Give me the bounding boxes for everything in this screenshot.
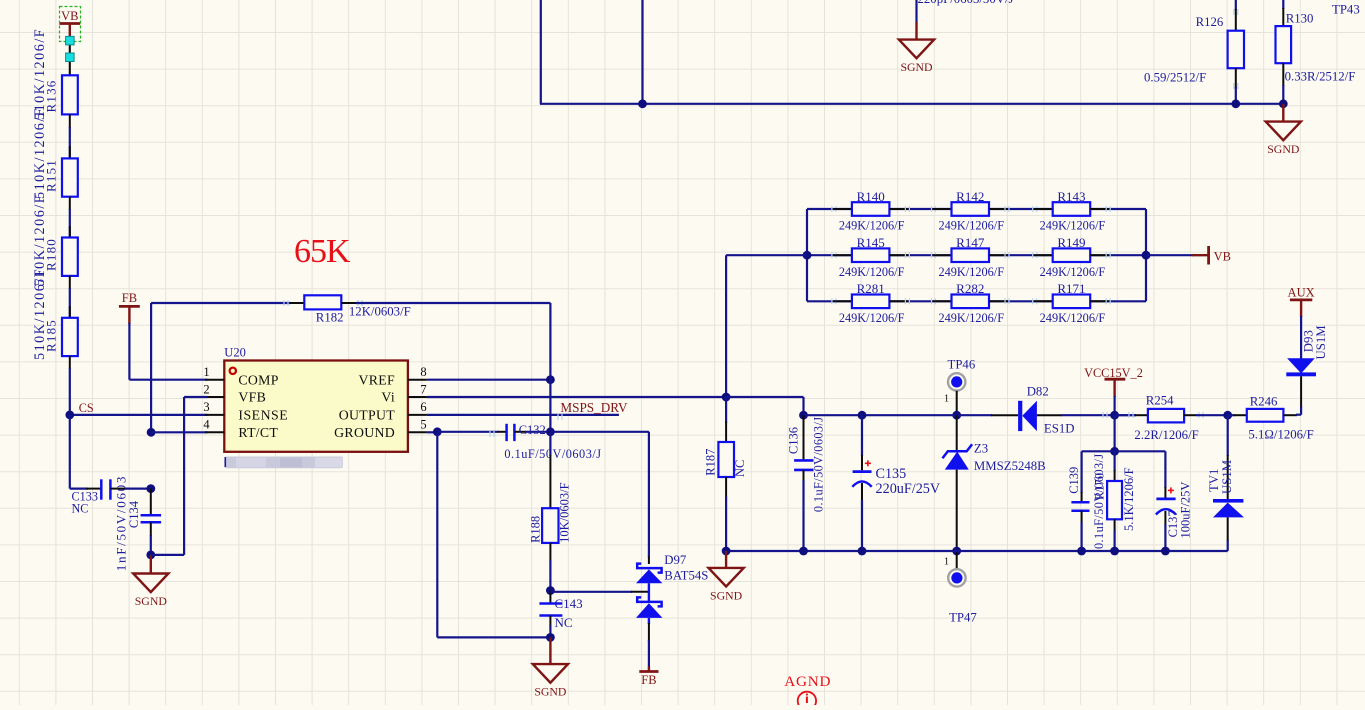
svg-text:RT/CT: RT/CT — [238, 425, 278, 440]
wire — [726, 255, 807, 398]
node junction — [799, 547, 808, 556]
diode D93 US1M — [1286, 316, 1328, 415]
svg-text:249K/1206/F: 249K/1206/F — [839, 311, 905, 325]
wire — [427, 396, 726, 398]
wire — [150, 303, 152, 433]
svg-text:SGND: SGND — [534, 685, 567, 699]
svg-text:U20: U20 — [224, 346, 246, 360]
wire — [550, 591, 650, 593]
svg-text:R188: R188 — [529, 516, 543, 543]
wire — [807, 300, 1146, 302]
node junction — [722, 547, 731, 556]
svg-text:MSPS_DRV: MSPS_DRV — [560, 400, 628, 415]
pin 1 — [203, 365, 278, 387]
svg-text:R187: R187 — [704, 449, 718, 476]
selection handle — [66, 53, 75, 62]
svg-text:C143: C143 — [555, 596, 583, 611]
svg-text:ES1D: ES1D — [1044, 422, 1075, 436]
wire — [356, 302, 550, 304]
node CS — [79, 401, 94, 415]
svg-text:510K/1206/F: 510K/1206/F — [32, 107, 48, 199]
capacitor C137 — [1156, 482, 1193, 551]
resistor R281 — [832, 281, 910, 325]
svg-text:5: 5 — [420, 418, 426, 432]
svg-text:VREF: VREF — [359, 372, 395, 387]
svg-text:1: 1 — [944, 557, 949, 568]
capacitor C133 — [72, 479, 151, 515]
resistor R171 — [1033, 281, 1111, 325]
pin 7 — [381, 382, 426, 404]
resistor R145 — [832, 235, 910, 279]
svg-text:2.2R/1206/F: 2.2R/1206/F — [1134, 428, 1198, 442]
svg-text:R142: R142 — [956, 189, 984, 204]
wire — [129, 323, 207, 380]
svg-text:FB: FB — [122, 291, 137, 305]
svg-text:NC: NC — [733, 460, 747, 477]
wire — [725, 550, 1228, 552]
diode D97 BAT54S — [636, 553, 708, 667]
node junction — [799, 411, 808, 420]
node junction — [1223, 411, 1232, 420]
power VCC15V_2 — [1084, 366, 1143, 397]
node junction — [147, 428, 156, 437]
wire — [437, 431, 506, 437]
resistor R176 — [1093, 451, 1137, 551]
wire — [437, 432, 550, 638]
wire — [427, 379, 551, 381]
pin 6 — [339, 400, 427, 422]
wire — [915, 0, 917, 22]
svg-text:8: 8 — [420, 365, 426, 379]
power AGND — [784, 673, 831, 710]
wire — [807, 208, 1146, 210]
power VB — [1192, 246, 1231, 265]
svg-text:TP47: TP47 — [949, 611, 977, 625]
svg-text:R149: R149 — [1057, 235, 1085, 250]
node junction — [952, 547, 961, 556]
wire — [726, 397, 803, 415]
diode D82 ES1D — [991, 385, 1136, 436]
svg-text:510K/1206/F: 510K/1206/F — [32, 268, 48, 360]
svg-text:C134: C134 — [127, 500, 141, 528]
node junction — [803, 251, 812, 260]
svg-text:C135: C135 — [876, 466, 907, 482]
wire — [1146, 254, 1193, 256]
svg-text:OUTPUT: OUTPUT — [339, 408, 395, 423]
resistor R149 — [1033, 235, 1111, 279]
svg-text:R170: R170 — [1093, 473, 1107, 500]
node junction — [1161, 547, 1170, 556]
node junction — [1110, 411, 1119, 420]
selection handle — [66, 36, 75, 45]
svg-text:R282: R282 — [956, 281, 984, 296]
capacitor C134 — [114, 475, 162, 571]
svg-text:SGND: SGND — [710, 588, 743, 602]
svg-text:VB: VB — [61, 9, 78, 23]
resistor R136 — [32, 28, 78, 159]
svg-text:VFB: VFB — [238, 390, 266, 405]
wire — [550, 432, 649, 564]
resistor R185 — [32, 268, 78, 415]
resistor R140 — [832, 189, 910, 233]
pin 2 — [203, 382, 266, 404]
pin 8 — [359, 365, 427, 387]
svg-text:R246: R246 — [1250, 395, 1278, 409]
svg-text:TP43: TP43 — [1332, 3, 1360, 17]
zener Z3 MMSZ5248B — [943, 415, 1046, 551]
wire — [1115, 396, 1136, 415]
svg-text:C132: C132 — [519, 423, 546, 437]
svg-text:MMSZ5248B: MMSZ5248B — [974, 459, 1046, 473]
svg-text:510K/1206/F: 510K/1206/F — [32, 28, 48, 120]
svg-text:Z3: Z3 — [974, 442, 988, 456]
svg-text:SGND: SGND — [1267, 142, 1300, 156]
svg-text:10K/0603/F: 10K/0603/F — [558, 482, 572, 542]
svg-text:7: 7 — [420, 382, 426, 396]
node junction — [858, 547, 867, 556]
power AUX — [1288, 286, 1315, 318]
svg-text:0.1uF/50V/0603/J: 0.1uF/50V/0603/J — [504, 447, 601, 461]
svg-text:R126: R126 — [1196, 15, 1224, 29]
resistor R126 — [1144, 0, 1244, 104]
wire — [427, 431, 438, 433]
svg-text:R130: R130 — [1286, 12, 1314, 26]
pin 3 — [203, 400, 288, 422]
resistor R187 — [704, 397, 748, 551]
capacitor C135 — [852, 415, 941, 551]
wire — [806, 254, 808, 256]
svg-text:1nF/50V/0603: 1nF/50V/0603 — [114, 475, 129, 571]
diode TV1 US1M — [1207, 415, 1244, 551]
power FB — [639, 667, 658, 688]
wire — [1145, 209, 1147, 301]
testpoint TP46 — [944, 358, 976, 416]
wire — [540, 0, 1285, 104]
resistor R180 — [32, 194, 78, 318]
wire — [1082, 451, 1166, 493]
svg-text:1: 1 — [944, 394, 949, 405]
svg-text:AGND: AGND — [784, 673, 831, 690]
svg-text:R254: R254 — [1146, 394, 1174, 408]
node junction — [1142, 251, 1151, 260]
svg-text:GROUND: GROUND — [334, 425, 395, 440]
node junction — [1110, 447, 1119, 456]
resistor R246 — [1228, 395, 1314, 442]
svg-text:220uF/25V: 220uF/25V — [876, 481, 941, 497]
wire — [641, 0, 643, 104]
resistor R147 — [932, 235, 1010, 279]
node junction — [146, 484, 155, 493]
node junction — [722, 393, 731, 402]
svg-text:R143: R143 — [1057, 189, 1085, 204]
svg-text:US1M: US1M — [1220, 460, 1234, 494]
svg-text:R182: R182 — [316, 311, 344, 325]
wire — [151, 302, 291, 304]
resistor R151 — [32, 107, 78, 238]
svg-text:0.1uF/50V/0603/J: 0.1uF/50V/0603/J — [1092, 453, 1106, 549]
svg-text:CS: CS — [79, 401, 94, 415]
svg-text:R147: R147 — [956, 235, 985, 250]
svg-text:COMP: COMP — [238, 372, 278, 387]
capacitor value label 220pF/0603/50V/J (clipped) — [918, 0, 1014, 6]
svg-text:VB: VB — [1214, 249, 1231, 263]
ground SGND — [709, 551, 744, 602]
svg-text:249K/1206/F: 249K/1206/F — [1040, 265, 1106, 279]
node junction — [546, 633, 555, 642]
svg-text:R145: R145 — [857, 235, 885, 250]
svg-text:249K/1206/F: 249K/1206/F — [839, 219, 905, 233]
node junction — [858, 411, 867, 420]
node junction — [146, 551, 155, 560]
wire — [936, 414, 992, 416]
pin 5 — [334, 418, 427, 440]
ground SGND — [133, 555, 168, 608]
resistor R182 — [284, 295, 411, 324]
node junction — [638, 99, 647, 108]
power VB — [59, 9, 80, 37]
wire — [70, 415, 102, 489]
svg-text:R281: R281 — [857, 281, 885, 296]
node junction — [546, 586, 555, 595]
testpoint TP43 label — [1332, 3, 1360, 17]
svg-text:249K/1206/F: 249K/1206/F — [938, 265, 1004, 279]
svg-text:NC: NC — [72, 502, 89, 516]
svg-text:249K/1206/F: 249K/1206/F — [1040, 311, 1106, 325]
svg-text:FB: FB — [641, 673, 656, 687]
ground SGND — [533, 637, 568, 698]
svg-text:2: 2 — [203, 382, 209, 396]
label 65K — [294, 233, 351, 270]
svg-text:Vi: Vi — [381, 390, 395, 405]
svg-text:0.59/2512/F: 0.59/2512/F — [1144, 71, 1206, 85]
wire — [69, 40, 71, 75]
svg-text:249K/1206/F: 249K/1206/F — [1040, 219, 1106, 233]
testpoint TP47 — [944, 551, 978, 625]
wire — [1115, 414, 1136, 416]
wire — [549, 303, 551, 433]
svg-text:AUX: AUX — [1288, 286, 1315, 300]
capacitor C143 — [539, 591, 582, 638]
svg-text:249K/1206/F: 249K/1206/F — [839, 265, 905, 279]
wire — [1113, 415, 1115, 451]
node junction — [433, 427, 442, 436]
net label MSPS_DRV — [560, 400, 628, 415]
resistor R142 — [932, 189, 1010, 233]
svg-text:US1M: US1M — [1314, 325, 1328, 359]
node junction — [65, 411, 74, 420]
wire — [427, 414, 619, 420]
svg-text:ISENSE: ISENSE — [238, 408, 288, 423]
resistor R143 — [1033, 189, 1111, 233]
svg-text:220pF/0603/50V/J: 220pF/0603/50V/J — [918, 0, 1014, 6]
svg-text:100uF/25V: 100uF/25V — [1178, 482, 1192, 539]
svg-text:1: 1 — [203, 365, 209, 379]
ground SGND — [899, 22, 934, 74]
svg-text:12K/0603/F: 12K/0603/F — [349, 305, 411, 319]
svg-text:D82: D82 — [1027, 385, 1049, 399]
resistor R282 — [932, 281, 1010, 325]
svg-text:TP46: TP46 — [948, 358, 976, 372]
svg-text:R140: R140 — [857, 189, 885, 204]
svg-text:65K: 65K — [294, 233, 351, 270]
svg-text:BAT54S: BAT54S — [664, 569, 708, 583]
op-amp U20 — [224, 346, 408, 452]
node junction — [546, 375, 555, 384]
svg-text:SGND: SGND — [900, 60, 933, 74]
resistor R188 — [529, 432, 572, 591]
svg-text:5.1Ω/1206/F: 5.1Ω/1206/F — [1248, 428, 1313, 442]
svg-text:0.1uF/50V/0603/J: 0.1uF/50V/0603/J — [812, 417, 826, 513]
node junction — [546, 427, 555, 436]
node junction — [1077, 547, 1086, 556]
pin 4 — [203, 418, 278, 440]
svg-text:NC: NC — [555, 615, 573, 630]
svg-text:4: 4 — [203, 418, 210, 432]
wire — [151, 397, 208, 555]
svg-text:6: 6 — [420, 400, 426, 414]
svg-text:C139: C139 — [1067, 467, 1081, 494]
blurred part number — [224, 457, 342, 469]
wire — [70, 414, 208, 416]
wire — [807, 254, 1146, 256]
node junction — [952, 411, 961, 420]
svg-text:D97: D97 — [664, 553, 687, 567]
node junction — [1110, 547, 1119, 556]
svg-text:3: 3 — [203, 400, 209, 414]
capacitor C139 — [1067, 453, 1106, 551]
wire — [806, 209, 808, 301]
node junction — [1279, 99, 1288, 108]
capacitor C136 — [787, 415, 826, 551]
power FB — [119, 291, 140, 324]
capacitor C132 — [504, 423, 601, 461]
wire — [151, 431, 207, 433]
svg-text:249K/1206/F: 249K/1206/F — [938, 311, 1004, 325]
selection box — [60, 7, 81, 54]
node junction — [1231, 99, 1240, 108]
svg-text:5.1K/1206/F: 5.1K/1206/F — [1122, 467, 1136, 531]
resistor R254 — [1129, 394, 1228, 443]
wire — [804, 414, 937, 416]
svg-text:0.33R/2512/F: 0.33R/2512/F — [1285, 69, 1356, 83]
svg-text:R171: R171 — [1057, 281, 1085, 296]
svg-text:C136: C136 — [787, 427, 801, 454]
ground SGND — [1266, 104, 1301, 156]
svg-text:249K/1206/F: 249K/1206/F — [938, 219, 1004, 233]
resistor R130 — [1276, 0, 1356, 104]
svg-text:SGND: SGND — [135, 594, 168, 608]
